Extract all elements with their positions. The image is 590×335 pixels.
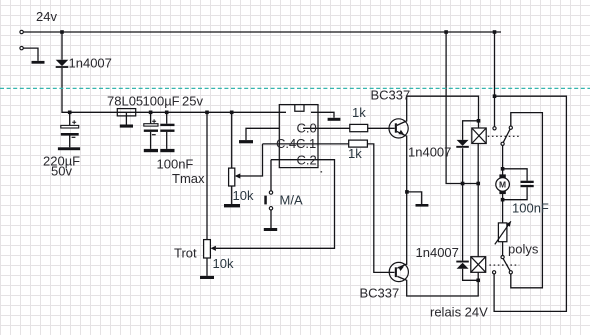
svg-text:M/A: M/A	[280, 193, 303, 208]
wire Q2 collector to coil K2 bottom	[397, 272, 478, 296]
svg-text:1n4007: 1n4007	[69, 56, 112, 71]
svg-text:1n4007: 1n4007	[408, 145, 451, 160]
svg-text:10k: 10k	[233, 188, 254, 203]
svg-text:1k: 1k	[352, 105, 366, 120]
wire 220uF bottom lead	[69, 136, 71, 148]
wire contact K1 NO to inner loop	[511, 113, 543, 288]
wire Tmax bottom stem	[231, 186, 233, 204]
wire M/A switch top lead	[270, 160, 272, 191]
svg-text:BC337: BC337	[371, 88, 411, 103]
diode D2 1n4007	[456, 261, 469, 269]
svg-text:24v: 24v	[36, 9, 57, 24]
wire relay coil K1 top to diode D1	[463, 121, 479, 140]
ground 220uF	[58, 147, 80, 150]
wire 220uF top lead	[69, 112, 71, 125]
wire 24v drop to contact K1	[494, 32, 496, 127]
svg-text:50v: 50v	[51, 164, 72, 179]
wire outer loop contact K2 return	[494, 96, 566, 311]
ground input	[32, 61, 45, 64]
wire M/A switch bottom lead	[270, 210, 272, 228]
ground 100uF	[144, 149, 158, 152]
wire IC right supply pin to ground	[311, 112, 334, 118]
motor M	[496, 174, 510, 194]
ground 78L05	[120, 125, 133, 128]
polyswitch diagonal arrow	[495, 221, 511, 244]
input terminal circles 24v	[20, 30, 23, 50]
wire 24v drop to relay supply node	[446, 32, 478, 184]
svg-text:relais 24V: relais 24V	[430, 305, 488, 320]
ground 100nF	[160, 149, 174, 152]
wire motor cap branch	[503, 169, 527, 181]
svg-text:Trot: Trot	[174, 246, 197, 261]
wire Trot bottom stem	[206, 258, 208, 276]
wire pin row C.2	[216, 160, 335, 249]
svg-text:25v: 25v	[182, 94, 203, 109]
svg-text:78L05: 78L05	[107, 94, 143, 109]
wire resistor R1 to Q1 base	[368, 127, 395, 129]
relay coil K1 crossed box	[472, 128, 486, 144]
wire diode D0 top lead	[61, 32, 63, 60]
wire resistor R2 to Q2 base	[367, 144, 394, 273]
resistor R2 1k box	[349, 140, 368, 147]
capacitor 100uF polarized	[144, 119, 158, 135]
ground Tmax	[224, 204, 240, 207]
wire pin C.0 to resistor R1	[303, 127, 350, 129]
teal section divider dashed line	[0, 87, 590, 89]
wire IC ground pin	[246, 128, 279, 140]
capacitor 100nF	[160, 124, 174, 132]
svg-text:1n4007: 1n4007	[416, 245, 459, 260]
wire pin row C.4 C.1	[263, 143, 349, 145]
transistor Q1 BC337	[389, 119, 408, 138]
wire Tmax wiper to pin C.4	[236, 144, 263, 176]
pushbutton M/A actuator	[264, 196, 267, 205]
svg-text:Tmax: Tmax	[172, 171, 205, 186]
svg-text:100µF: 100µF	[143, 94, 180, 109]
wire diode D2 anode to coil K2 bottom	[463, 269, 479, 281]
wire contact K1 slanted arm	[503, 129, 510, 142]
relay K1 mechanical link dotted	[488, 135, 520, 137]
wire 78L05 ground stem	[125, 112, 127, 124]
potentiometer Tmax wiper arrow	[235, 173, 241, 178]
diode D1 1n4007	[456, 140, 469, 148]
wire contact K1 movable to motor	[502, 145, 504, 174]
wire Q1 collector	[397, 96, 479, 128]
wire diode D1 cathode down to diode D2 cathode	[462, 148, 464, 260]
svg-text:C.1: C.1	[296, 136, 316, 151]
transistor Q2 BC337	[389, 262, 408, 281]
polyswitch box	[498, 223, 507, 242]
potentiometer Trot wiper arrow	[210, 246, 216, 251]
wire Q2 emitter	[397, 264, 406, 268]
relay coil K2 crossed box	[471, 257, 486, 273]
wire Trot column from 5V rail	[206, 112, 208, 239]
capacitor 220uF polarized	[61, 120, 79, 137]
wire input terminal 2 to ground	[23, 48, 38, 61]
potentiometer Trot box	[204, 240, 211, 258]
svg-text:C.2: C.2	[297, 153, 317, 168]
svg-text:100nF: 100nF	[157, 157, 194, 172]
ground Trot	[200, 276, 214, 279]
wire 24v top rail	[23, 31, 501, 33]
svg-text:100nF: 100nF	[512, 201, 549, 216]
svg-text:BC337: BC337	[360, 286, 400, 301]
wire motor bottom to polyswitch	[502, 194, 504, 223]
potentiometer Tmax box	[229, 168, 235, 186]
relay K1 contact terminal circles	[493, 126, 512, 145]
wire Q1 emitter	[397, 131, 407, 265]
resistor R1 1k box	[350, 124, 368, 131]
wire contact K2 slanted arm	[503, 259, 510, 271]
ground IC left pin	[239, 140, 253, 143]
wire emitter node to ground	[407, 192, 422, 204]
capacitor 100nF motor	[521, 181, 534, 188]
relay K2 contact terminal circles	[493, 256, 513, 274]
stray dot near C.2	[321, 171, 323, 173]
relay K2 mechanical link dotted	[489, 264, 519, 266]
svg-text:C.4: C.4	[276, 136, 296, 151]
pushbutton M/A terminal circles	[269, 191, 272, 210]
IC U1 box with notch	[279, 105, 318, 168]
wire 100nF leads	[166, 112, 168, 123]
svg-text:polys: polys	[508, 242, 539, 257]
wire polyswitch to contact K2	[502, 242, 504, 256]
ground IC right pin	[328, 118, 341, 121]
wire relay coil K1 bottom to coil K2 top	[477, 144, 479, 257]
regulator 78L05 box	[117, 109, 135, 116]
svg-text:M: M	[499, 180, 506, 190]
wire 100uF leads	[150, 112, 152, 123]
svg-text:1k: 1k	[348, 146, 362, 161]
svg-text:10k: 10k	[213, 256, 234, 271]
wire diode D0 bottom lead down to 5V rail	[62, 68, 286, 112]
diode D0 1n4007	[56, 60, 69, 68]
svg-text:C.0: C.0	[297, 121, 317, 136]
wire Tmax column from 5V rail	[231, 112, 233, 168]
ground Q1 emitter	[416, 204, 429, 207]
ground M/A	[264, 228, 277, 231]
